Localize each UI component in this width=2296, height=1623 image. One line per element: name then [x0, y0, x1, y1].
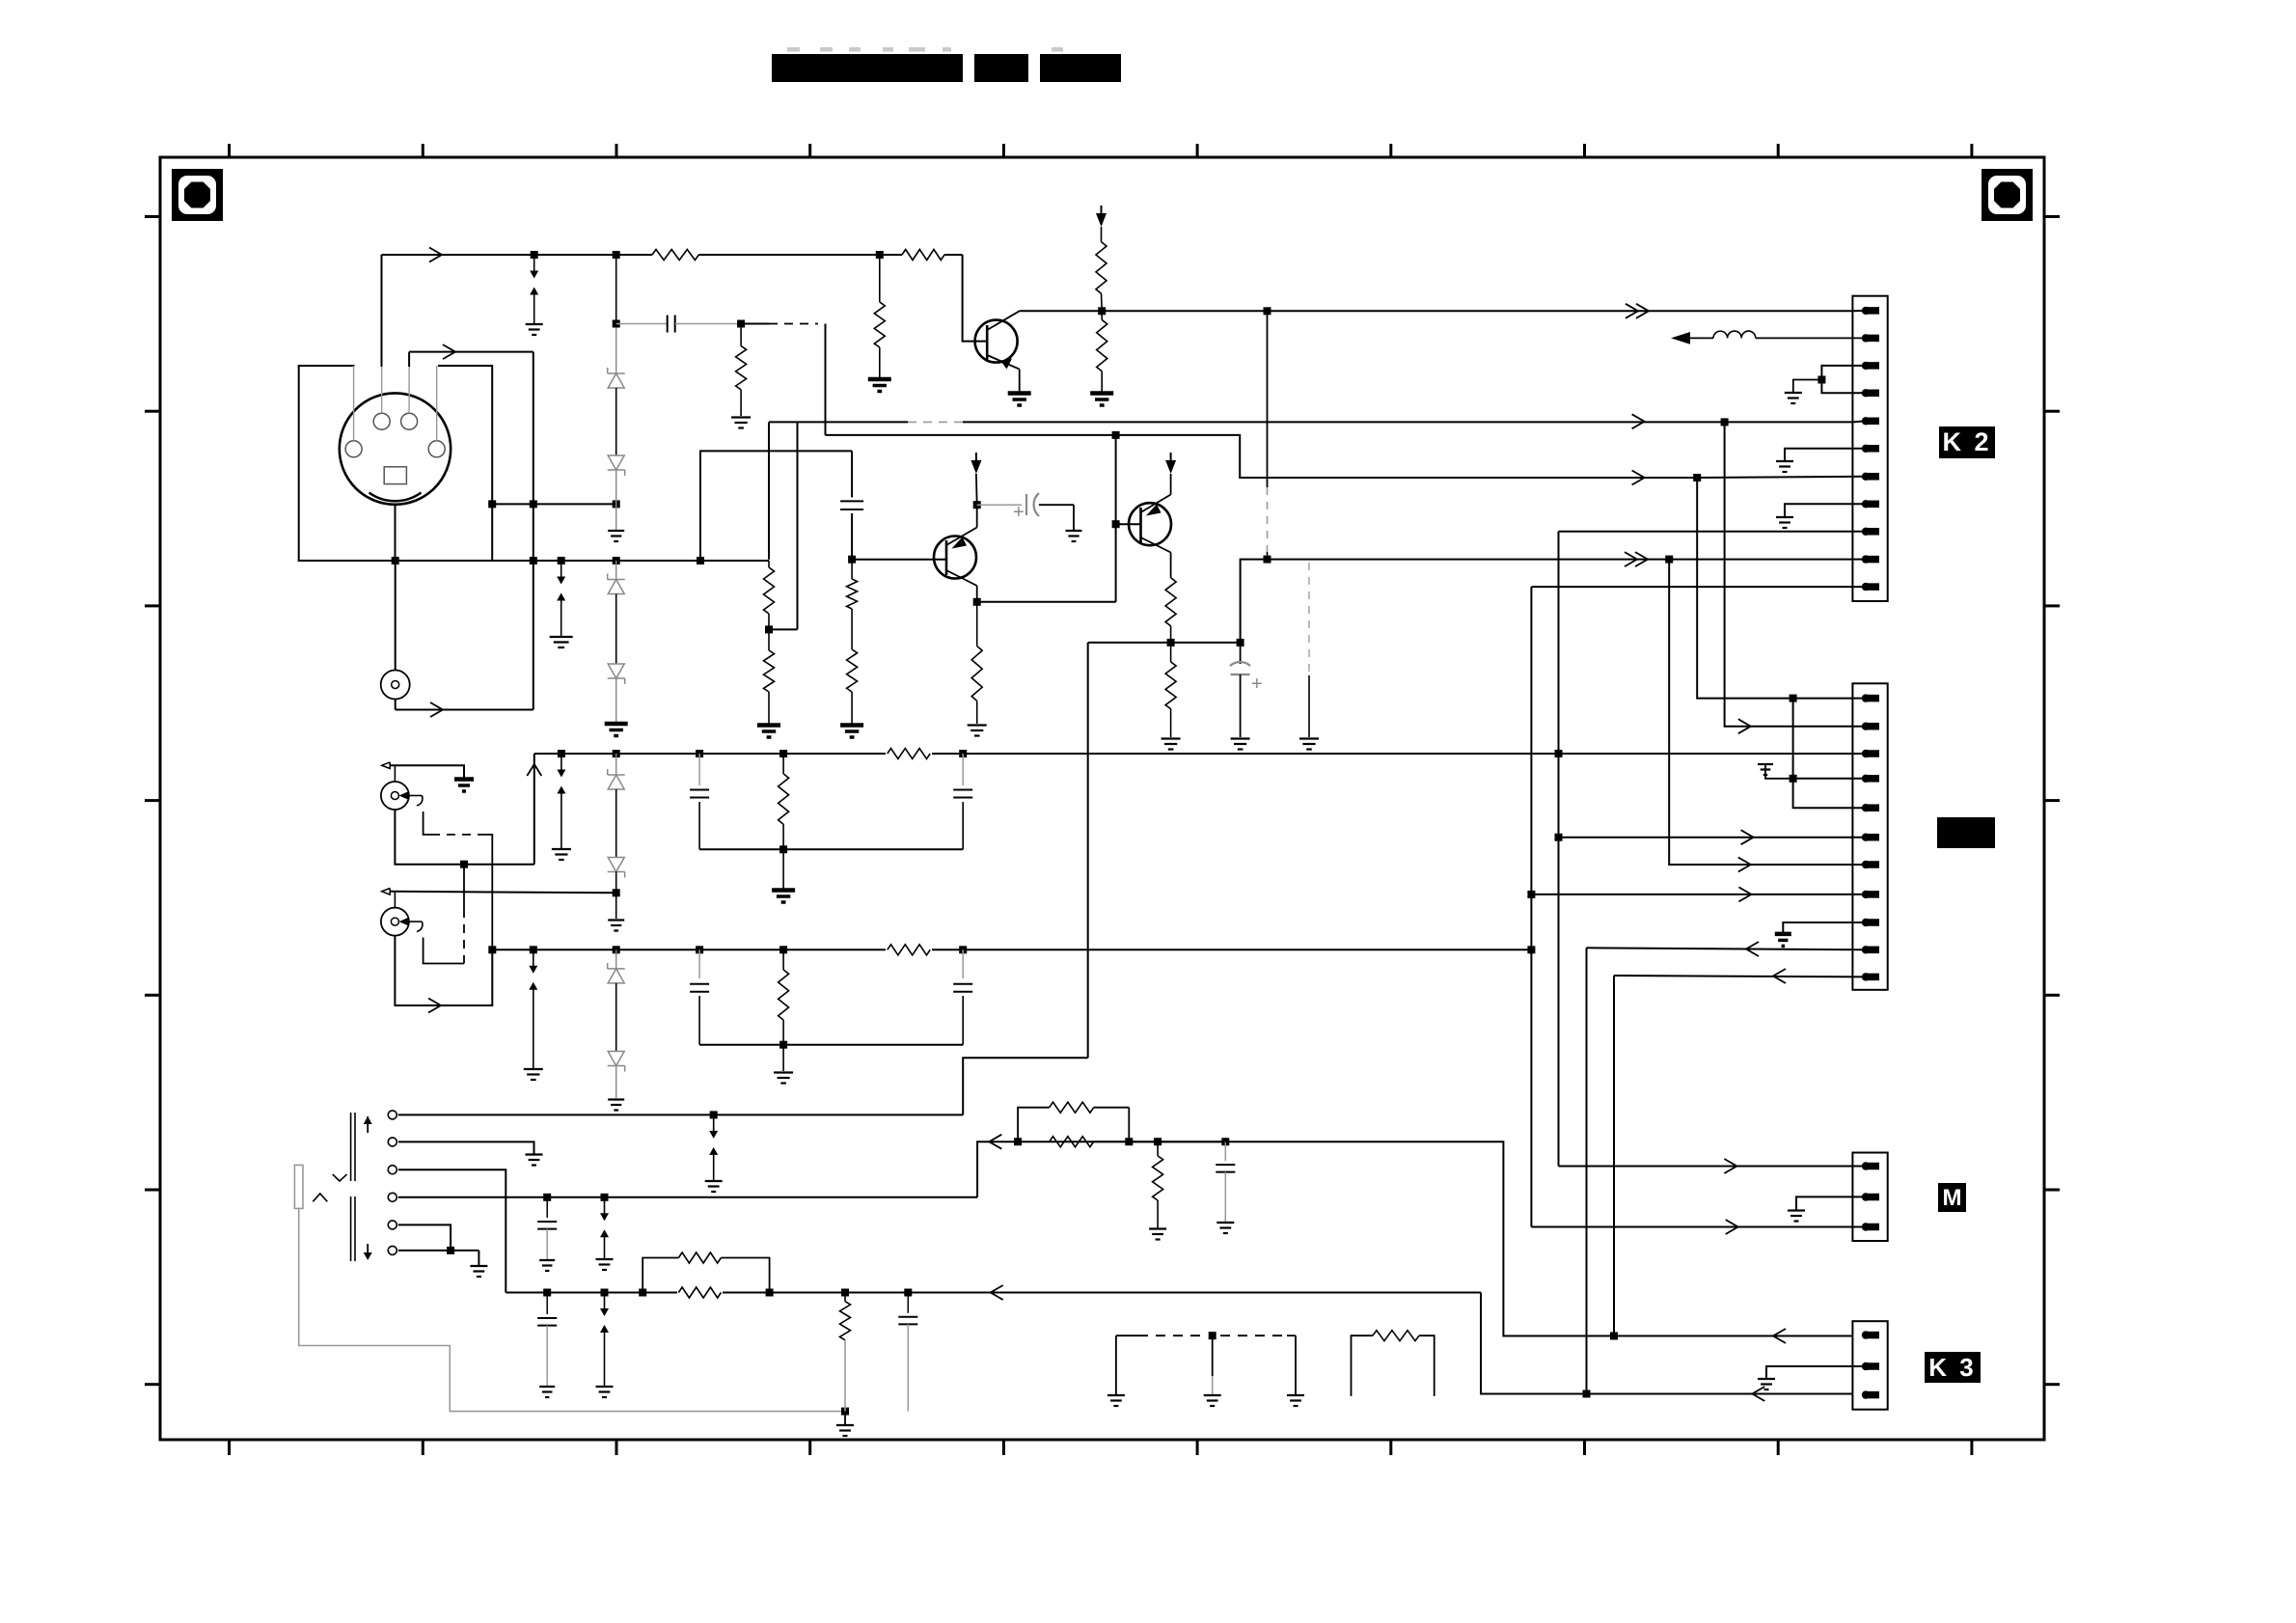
- RCA2 stub from top wire: [394, 893, 396, 908]
- X2 label (redacted): [1937, 817, 1995, 848]
- junction chain3 / RCA2 wire: [615, 872, 617, 920]
- K2 pin 10: [1862, 555, 1870, 563]
- double arrow on collector line: [1636, 304, 1649, 318]
- jack contact 5: [388, 1221, 396, 1229]
- frame tick marks: [228, 144, 231, 157]
- K2 pin6 ground stub: [1785, 449, 1866, 460]
- junction Q3 emitter network: [1167, 639, 1175, 646]
- junction cap line / R3: [737, 320, 745, 328]
- jack contact rail 2 (double line): [350, 1197, 352, 1261]
- dashed bracket net: [1115, 1335, 1117, 1394]
- RCA2 input marker triangle: [382, 889, 391, 895]
- rail arrow down: [367, 1244, 369, 1257]
- junction tie / pin4: [1790, 775, 1797, 783]
- ground pi1 (thick): [782, 849, 784, 889]
- Q3 emitter line A right segment: [1241, 560, 1853, 643]
- Q2 emitter wire to supply node: [976, 505, 978, 527]
- zener diode D4 (down): [608, 677, 625, 679]
- junction sleeve line / dashed drop: [460, 861, 468, 868]
- junction line B / cap C5: [696, 750, 703, 757]
- junction video line / diode chain: [613, 251, 620, 259]
- cap C5: [698, 754, 700, 785]
- jack contact 2: [388, 1138, 396, 1146]
- junction rail2 / ground: [779, 1041, 787, 1049]
- fiducial marker top-left: [172, 169, 223, 221]
- junction c4 / C9: [543, 1194, 551, 1201]
- K3 pin2 ground stub: [1766, 1366, 1866, 1378]
- arrow X2 pin11: [1773, 969, 1786, 983]
- wire collector node to riser: [977, 601, 1116, 603]
- ground chain4: [608, 1098, 624, 1100]
- ground pi2: [782, 1045, 784, 1071]
- junction rail / ground: [779, 845, 787, 853]
- zener diode D1 (up): [608, 372, 625, 374]
- X2 pin 7: [1862, 861, 1870, 868]
- cap C7: [698, 949, 700, 978]
- title block redaction bar 2: [974, 54, 1028, 82]
- resistor R22 to ground: [1157, 1142, 1159, 1156]
- X2 pin 8: [1862, 891, 1870, 898]
- resistor loop (upside-down U): [1352, 1335, 1373, 1396]
- arrow on audio L: [989, 1135, 1001, 1149]
- K2 pin 8: [1862, 500, 1870, 508]
- RCA1 stub from top wire: [394, 765, 396, 782]
- connector K3 body: [1852, 1321, 1887, 1410]
- X2 pin 2: [1862, 723, 1870, 730]
- Q3 base link from Q2 collector node: [1116, 523, 1141, 525]
- junction pair right: [1125, 1138, 1133, 1145]
- ground R12: [968, 724, 987, 726]
- junction video line / R4 divider: [876, 251, 884, 259]
- junction Q2 emitter / decoupling: [973, 501, 981, 509]
- DIN connector J1 body: [340, 393, 451, 504]
- junction line A right / riser x=1730: [1665, 556, 1673, 564]
- supply arrow Q2: [975, 453, 977, 463]
- ground C3: [1073, 505, 1075, 530]
- junction sleeve / R19: [841, 1408, 849, 1416]
- junction x=553 / y=522 link: [530, 500, 537, 508]
- jack contact rail 1 (double line): [350, 1113, 352, 1181]
- arrow X2 pin10: [1746, 942, 1759, 956]
- wire down to cap C2: [851, 451, 853, 497]
- pi filter bottom rail 2: [699, 1044, 963, 1046]
- junction on box edge: [488, 500, 496, 508]
- ground RCA1 (thick): [454, 777, 474, 782]
- X2 pin 11: [1862, 973, 1870, 980]
- ground dashed drop: [1299, 737, 1319, 739]
- DIN pin 2: [428, 441, 445, 457]
- junction Q3 base tap: [1112, 520, 1120, 528]
- signal arrow on pin1 line: [443, 344, 455, 359]
- contact4 wire (audio L): [398, 1197, 977, 1198]
- spark gap on line C: [533, 949, 534, 966]
- junction parallel pair R: [639, 1289, 646, 1297]
- zener D8: [608, 1065, 625, 1067]
- M pin 2: [1862, 1193, 1870, 1200]
- cap C8: [962, 949, 964, 978]
- X2 pin8 wire: [1531, 894, 1866, 895]
- audio line R path: [506, 1292, 1481, 1294]
- X2 pins 1/4/5 tie: [1793, 699, 1866, 809]
- X2 pin6 wire: [1559, 837, 1867, 839]
- line B y=781: [534, 753, 1853, 755]
- connector X2 body: [1852, 683, 1887, 990]
- rail arrow up: [367, 1116, 369, 1133]
- junction line B / riser x=1615: [1555, 750, 1563, 757]
- K2 pin8 ground stub: [1785, 504, 1866, 516]
- junction shunt C10: [1221, 1138, 1229, 1145]
- junction line C / R17: [779, 946, 787, 953]
- DIN shield stub down: [395, 505, 396, 561]
- spark gap to ground at input: [533, 255, 535, 271]
- M pin 1: [1862, 1162, 1870, 1169]
- K2 pin3/pin4 tie: [1821, 366, 1866, 393]
- junction emitter node / elec cap: [1237, 639, 1244, 646]
- junction line B right of R16: [959, 750, 967, 757]
- RCA1 switched contact wire: [424, 811, 431, 835]
- resistor R14: [1170, 643, 1172, 662]
- K2 pin 5: [1862, 417, 1870, 425]
- junction line C / spark drop: [530, 946, 537, 953]
- DIN pin 1: [401, 413, 418, 429]
- parallel resistors R20/R21: [1018, 1108, 1050, 1142]
- arrow M pin1: [1724, 1159, 1736, 1173]
- junction video line / spark gap: [531, 251, 538, 259]
- dashed wire segment: [769, 323, 818, 325]
- contact3 wire down to audio line 2: [398, 1169, 506, 1292]
- svg-text:+: +: [1251, 674, 1263, 695]
- DIN pin 4 stub wire: [353, 366, 355, 441]
- arrow K3 pin3: [1752, 1387, 1764, 1401]
- electrolytic C3: [977, 504, 1022, 506]
- K3 pin 2: [1862, 1362, 1870, 1370]
- X2 pin3 wire from line B: [1853, 753, 1866, 755]
- ground R9 (thick): [757, 723, 780, 728]
- RCA1 tip arrow: [399, 791, 410, 800]
- plug sleeve route (gray): [299, 1208, 845, 1411]
- svg-text:M: M: [1943, 1185, 1962, 1211]
- wire down to Q1 base: [963, 255, 987, 342]
- junction bus437 / conn2 pin2 drop: [1721, 418, 1729, 426]
- junction conn2 pin1 / tie: [1790, 695, 1797, 702]
- RCA2 switch hook: [417, 922, 423, 932]
- resistor R10: [851, 560, 853, 579]
- cap C10: [1224, 1142, 1226, 1161]
- RCA2 jack circle: [381, 908, 409, 936]
- zener diode D2 (down): [608, 469, 625, 471]
- arrow K3 pin1: [1773, 1329, 1786, 1343]
- X2 pin10 wire: [1587, 948, 1867, 949]
- signal arrow on sleeve wire: [428, 999, 441, 1013]
- junction shunt R22: [1154, 1138, 1162, 1145]
- spark gap on bus A: [558, 557, 565, 564]
- K2 pin 3: [1862, 362, 1870, 370]
- Q1 emitter to ground: [1019, 370, 1021, 392]
- pair R bottom resistor: [677, 1290, 723, 1296]
- corner bus A right end: [700, 560, 769, 562]
- link y=467 (Q2 base network): [700, 451, 852, 559]
- audio line L path: [977, 1142, 1225, 1197]
- junction tie / ground stub: [1818, 376, 1825, 384]
- ground R4 (thick): [868, 377, 891, 382]
- junction line B / R15: [779, 750, 787, 757]
- DIN pin 1 wire up: [408, 367, 410, 413]
- headphone plug body: [294, 1165, 303, 1208]
- wire shield box to x=553 and diode chain: [492, 503, 616, 505]
- junction pair R right: [766, 1289, 774, 1297]
- wire collector junction down (part dashed): [1267, 311, 1269, 487]
- junction Q2 base node: [848, 556, 856, 564]
- X2 pin 9: [1862, 919, 1870, 926]
- resistor R8: [768, 561, 770, 567]
- zener D6: [608, 871, 625, 873]
- junction line C / cap C7: [696, 946, 703, 953]
- X2 pin11 wire: [1614, 976, 1866, 977]
- pi filter bottom rail 1: [699, 848, 963, 850]
- DIN pin 3: [373, 413, 390, 429]
- junction x=553 / ground line A: [530, 557, 537, 564]
- junction bus A / clamp chain2: [613, 557, 620, 564]
- X2 pin 5: [1862, 804, 1870, 811]
- DIN pin 2 stub wire: [436, 366, 438, 441]
- X2 pin9 ground stub: [1783, 922, 1866, 933]
- cap C12: [907, 1293, 909, 1313]
- jack contact 1: [388, 1111, 396, 1119]
- M label: [1938, 1183, 1966, 1212]
- series resistor R18 in line C: [886, 947, 932, 952]
- vertical wire x=553 down: [533, 352, 534, 710]
- title block redaction bar 3: [1040, 54, 1121, 82]
- ground C4: [1231, 737, 1250, 739]
- jack contact 3: [388, 1166, 396, 1174]
- junction c3-line / C11: [543, 1289, 551, 1297]
- series resistor R16 in line B: [886, 751, 932, 756]
- K2 label: [1939, 426, 1995, 458]
- junction parallel pair L: [1014, 1138, 1022, 1145]
- junction K3 pin1 line / riser1673: [1610, 1333, 1618, 1340]
- dashed drop to ground x=1357: [1308, 563, 1310, 675]
- wire emitter node left/right: [1088, 642, 1241, 644]
- line C terminates on riser x=1587: [1527, 946, 1535, 953]
- riser x=1759 (K2 pin7 to conn2 pin1): [1693, 474, 1701, 481]
- junction on ground bus A right: [1264, 556, 1271, 564]
- junction line C / clamp chain4: [613, 946, 620, 953]
- RCA1 sleeve wire: [395, 810, 533, 865]
- junction line B / clamp chain3: [613, 750, 620, 757]
- signal arrow X2 pin8: [1738, 887, 1751, 901]
- wire to dashed segment: [741, 323, 769, 325]
- signal arrow conn2 pin2: [1738, 719, 1751, 733]
- DIN key slot: [384, 467, 406, 484]
- Q2 base wire: [852, 559, 946, 561]
- K3 pin 3: [1862, 1390, 1870, 1398]
- junction contact1 spark gap: [710, 1111, 718, 1118]
- resistor R2 (series video): [902, 250, 944, 261]
- wire corner to RCA0: [396, 709, 533, 711]
- RCA2 switched contact wire: [424, 938, 464, 964]
- resistor R7: [1101, 311, 1103, 319]
- dashed drop to RCA2 contact: [463, 865, 465, 909]
- resistor R12 collector load: [976, 602, 978, 646]
- riser x=1730 (line A to conn2 pin7): [1669, 560, 1866, 865]
- cap C11: [546, 1293, 548, 1315]
- wire: DIN pin1 line: [409, 351, 533, 353]
- K2 pin 9: [1862, 528, 1870, 536]
- signal arrow to RCA0 line: [430, 702, 443, 717]
- Q1 collector line Y5: [1020, 310, 1853, 312]
- DIN connector J1 shield box: [299, 366, 493, 561]
- wire junction to coupling cap: [616, 323, 668, 325]
- cap C9: [546, 1197, 548, 1218]
- riser x=1615 (K2 pin9 to M pin1): [1558, 532, 1560, 1167]
- bus wire y=451 from cap-line riser: [826, 434, 1116, 436]
- Q3 emitter resistor R13: [1170, 553, 1172, 578]
- bus wire y=437 corner: [769, 421, 1853, 423]
- X2 pin 6: [1862, 834, 1870, 841]
- junction chain / cap line Y4: [613, 320, 620, 328]
- resistor R9: [768, 629, 770, 650]
- K3 label: [1925, 1352, 1981, 1383]
- RCA2 sleeve wire: [395, 936, 492, 1005]
- double arrow on line A right: [1635, 552, 1648, 566]
- wire R2 to Q1 base corner: [944, 254, 963, 256]
- ground chain3: [608, 919, 624, 921]
- contact5 wire joins contact6: [398, 1224, 451, 1251]
- RCA2 top wire to clamp chain: [390, 892, 616, 894]
- M pin2 ground stub: [1796, 1197, 1866, 1209]
- grounds of bracket: [1107, 1394, 1125, 1396]
- resistor R4: [874, 302, 885, 347]
- ground R7 (thick): [1090, 391, 1113, 396]
- capacitor C2: [840, 500, 863, 502]
- jack contact 6: [388, 1246, 396, 1254]
- K2 pin11 bus y=608: [1531, 586, 1866, 588]
- transistor Q2: [934, 536, 976, 579]
- K2 pin9 bus y=551: [1559, 531, 1867, 533]
- X2 pin 3: [1862, 750, 1870, 757]
- resistor R1 (series video): [652, 250, 698, 261]
- riser x=1644 (conn2 pin10 down to K3 pin3 line): [1586, 948, 1588, 1393]
- resistor R11: [847, 649, 858, 692]
- zener diode D3 (up): [608, 579, 625, 581]
- junction riser1615 / conn2 pin6 line: [1555, 834, 1563, 841]
- K2 pin 11: [1862, 583, 1870, 591]
- spark gap on audio R: [601, 1289, 609, 1297]
- coupling capacitor C1: [667, 316, 669, 333]
- X2 pin 4: [1862, 775, 1870, 783]
- junction audio R / C12: [904, 1289, 912, 1297]
- K2 pin 6: [1862, 445, 1870, 453]
- electrolytic C4: [1240, 643, 1242, 664]
- riser x=1788 (bus437 to conn2 pin2): [1725, 422, 1866, 726]
- junction bus A / base network riser: [697, 557, 704, 564]
- signal arrow conn2 pin7: [1738, 858, 1751, 872]
- RCA2 tip arrow: [399, 918, 410, 926]
- K2 pin 1: [1862, 307, 1870, 315]
- X2 pin 10: [1862, 946, 1870, 953]
- resistor R6: [1096, 242, 1107, 294]
- arrow on audio R: [991, 1285, 1003, 1300]
- K2 pin10 wire (line A): [1853, 559, 1866, 561]
- wire junction down: [879, 255, 881, 302]
- wire cap to base node: [851, 513, 853, 560]
- wire: DIN pin3 video line: [382, 254, 653, 256]
- junction riser1587 / conn2 pin8: [1527, 891, 1535, 898]
- junction collector / divider R6 R7: [1098, 307, 1106, 315]
- M pin3 wire: [1531, 1226, 1866, 1228]
- riser x=1156.6 down to Q2 collector node: [1115, 435, 1117, 602]
- clamp chain4: zener D7: [615, 949, 617, 968]
- ground sleeve: [844, 1412, 846, 1424]
- title block redaction bar 1: [772, 54, 963, 82]
- RCA1 switch hook: [417, 796, 423, 807]
- wire RCA0 to corner: [395, 700, 396, 710]
- junction K3 pin3 line / riser1644: [1583, 1390, 1591, 1398]
- ground stub K2 pin3/4: [1793, 380, 1822, 393]
- connector M body: [1852, 1153, 1887, 1242]
- resistor R3 to ground: [740, 324, 742, 346]
- junction collector / dashed drop: [1264, 307, 1271, 315]
- junction x=510 / line C: [488, 946, 496, 953]
- junction audio R / R19: [841, 1289, 849, 1297]
- signal arrow bus437: [1632, 414, 1645, 428]
- contact2 wire to ground: [398, 1142, 534, 1153]
- left drop of line B: [533, 754, 535, 865]
- wire R1 to R2: [698, 254, 902, 256]
- contact6 wire to ground: [398, 1250, 479, 1252]
- clamp chain3: zener D5: [615, 754, 617, 775]
- signal arrow X2 pin6: [1741, 830, 1754, 844]
- corner down x=855: [825, 324, 827, 435]
- RCA1 top wire to ground: [390, 765, 464, 778]
- M pin 3: [1862, 1223, 1870, 1230]
- vertical clamp diode chain x=639: [615, 255, 617, 326]
- cap C6: [962, 754, 964, 785]
- junction line C right of R18: [959, 946, 967, 953]
- switch chevron 1: [333, 1174, 347, 1181]
- test point RCA0: [381, 671, 410, 700]
- ground stub X2 pin4 net: [1765, 765, 1793, 779]
- riser x=1587 (K2 pin11 to M pin3): [1530, 587, 1532, 1226]
- K2 pin7 bus y=494: [1697, 477, 1866, 478]
- ground R3: [731, 416, 751, 418]
- spark gap on line B: [558, 750, 565, 757]
- ground R10/R11 (thick): [840, 723, 863, 728]
- arrow M pin3: [1726, 1220, 1738, 1234]
- border frame: [160, 157, 2044, 1440]
- fiducial marker top-right: [1982, 169, 2033, 221]
- RCA1 jack circle: [381, 782, 409, 810]
- Q2 collector node: [976, 586, 978, 602]
- signal arrow on video line: [429, 248, 442, 262]
- junction DIN shield / ground line: [392, 557, 399, 564]
- DIN pin 4: [345, 441, 362, 457]
- K2 pin1 wire: [1853, 310, 1866, 312]
- parallel pair bottom resistor: [1050, 1137, 1094, 1147]
- audio L route to K3 pin1: [1225, 1142, 1853, 1335]
- ground of clamp chain: [608, 530, 624, 532]
- RCA1 input marker triangle: [382, 762, 391, 769]
- riser x=1127.7 down to headphone line: [1087, 643, 1089, 1058]
- bracket mid leg: [1212, 1335, 1214, 1376]
- X2 pin 1: [1862, 694, 1870, 701]
- link to x=826 riser: [769, 628, 798, 630]
- vertical x=797 bus437 to bus A: [768, 422, 770, 559]
- svg-text:+: +: [1013, 502, 1025, 523]
- K2 pin2 inductor line: [1671, 332, 1690, 344]
- ground R14: [1162, 737, 1181, 739]
- K3 pin 1: [1862, 1331, 1870, 1338]
